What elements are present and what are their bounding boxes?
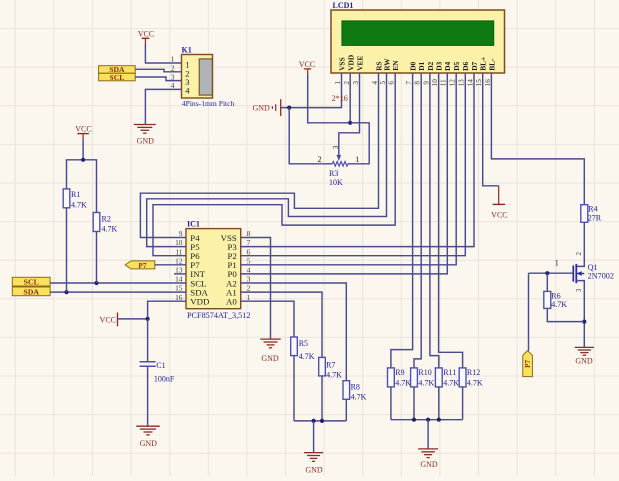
svg-text:6: 6 <box>247 247 251 256</box>
wire to GND (R5 group) <box>313 421 315 452</box>
svg-text:P7: P7 <box>138 261 147 270</box>
wire LCD D0 to R9 <box>391 73 413 368</box>
wire R11 bottom <box>438 387 440 420</box>
svg-text:D1: D1 <box>417 61 426 70</box>
svg-text:4.7K: 4.7K <box>326 370 342 379</box>
wire LCD pin 3 VEE to R3 wiper <box>339 73 360 155</box>
wire R1 to SDA <box>66 208 68 292</box>
svg-text:4.7K: 4.7K <box>418 379 434 388</box>
svg-text:12: 12 <box>449 79 457 87</box>
ground symbol (IC VSS) <box>260 339 281 348</box>
wire VCC to IC pin 16 VDD <box>118 301 186 319</box>
svg-text:GND: GND <box>137 137 155 146</box>
junction VCC/R1/R2 <box>81 158 85 162</box>
svg-text:2*16: 2*16 <box>332 94 348 103</box>
svg-text:1: 1 <box>355 155 359 164</box>
svg-text:C1: C1 <box>156 361 165 370</box>
IC1 right pin numbers 8-1 <box>247 229 251 302</box>
svg-text:BL-: BL- <box>487 58 496 71</box>
svg-text:D3: D3 <box>435 61 444 70</box>
wire P7 to IC pin 12 <box>155 264 186 266</box>
svg-text:SDA: SDA <box>23 287 39 296</box>
junction at R10 bottom <box>412 418 416 422</box>
power port VCC (LCD VDD) <box>299 60 315 75</box>
power port VCC (backlight) <box>491 186 507 220</box>
svg-text:K1: K1 <box>182 46 192 55</box>
wire LCD BL+ to VCC <box>483 73 499 186</box>
svg-text:4: 4 <box>371 81 379 85</box>
junction SDA/R1 <box>64 290 68 294</box>
resistor R5 <box>291 337 298 356</box>
svg-text:R1: R1 <box>71 190 80 199</box>
connector K1 <box>182 55 213 99</box>
svg-text:8: 8 <box>247 229 251 238</box>
svg-text:4.7K: 4.7K <box>443 379 459 388</box>
resistor R4 <box>581 205 588 223</box>
svg-text:2: 2 <box>318 155 322 164</box>
power port GND (LCD VSS, bar style) <box>252 99 280 116</box>
junction at R11 bottom <box>437 418 441 422</box>
svg-text:VSS: VSS <box>337 57 346 71</box>
wire GND to LCD pin 1 VSS <box>281 73 342 108</box>
wire P6 to LCD EN <box>153 73 395 256</box>
svg-text:10K: 10K <box>329 178 343 187</box>
wire gate junction to R6 <box>546 273 548 291</box>
resistor R11 <box>435 368 442 387</box>
svg-text:3: 3 <box>331 145 340 149</box>
svg-text:PCF8574AT_3,512: PCF8574AT_3,512 <box>187 311 250 320</box>
svg-text:7: 7 <box>405 81 413 85</box>
svg-text:7: 7 <box>247 238 251 247</box>
svg-text:4.7K: 4.7K <box>467 379 483 388</box>
svg-text:1: 1 <box>334 81 342 85</box>
svg-text:VDD: VDD <box>190 297 209 307</box>
junction source/R6 <box>582 320 586 324</box>
svg-text:SCL: SCL <box>24 278 39 287</box>
wire junction down to R3 pin 2 <box>289 108 332 164</box>
svg-text:8: 8 <box>414 81 422 85</box>
wire P1 to LCD D5 <box>241 73 457 265</box>
IC1 left pin numbers 9-16 <box>175 229 183 302</box>
resistor R1 <box>63 189 70 208</box>
svg-text:R12: R12 <box>467 368 480 377</box>
junction VDD/VCC/R3 <box>348 121 352 125</box>
wire LCD D2 to R11 <box>430 73 439 368</box>
wire Q1 gate <box>529 272 574 274</box>
svg-text:GND: GND <box>420 460 438 469</box>
svg-text:D5: D5 <box>452 61 461 70</box>
wire R7 bottom <box>321 376 323 421</box>
svg-text:4.7K: 4.7K <box>71 200 87 209</box>
wire A0 to R5 <box>241 301 294 337</box>
wire SCL to K1 pin 3 <box>135 77 181 81</box>
svg-text:3: 3 <box>352 81 360 85</box>
wire P2 to LCD D6 <box>241 73 466 256</box>
IC U1 PCF8574AT <box>186 229 241 309</box>
svg-text:RW: RW <box>382 58 391 71</box>
wire R4 to Q1 drain <box>576 222 584 266</box>
svg-text:4.7K: 4.7K <box>351 393 367 402</box>
svg-text:D7: D7 <box>470 61 479 70</box>
svg-text:27R: 27R <box>588 213 602 222</box>
wire SDA to IC pin 15 <box>50 291 186 293</box>
wire R6 bottom to source <box>547 308 584 321</box>
svg-text:14: 14 <box>175 275 183 284</box>
transistor Q1 2N7002 <box>573 264 584 283</box>
resistor R8 <box>343 381 350 400</box>
ground symbol (C1) <box>136 426 160 435</box>
wire VCC to K1 pin 1 <box>145 45 181 64</box>
port P7 (right) <box>523 351 533 377</box>
svg-text:1: 1 <box>171 55 175 64</box>
wire common bottom R9-R12 <box>391 419 463 421</box>
potentiometer R3 <box>332 155 348 166</box>
svg-text:GND: GND <box>261 354 279 363</box>
junction VDD/C1 <box>146 317 150 321</box>
svg-text:1: 1 <box>555 259 559 268</box>
svg-text:4.7K: 4.7K <box>102 225 118 234</box>
wire SDA to K1 pin 2 <box>135 69 181 72</box>
wire LCD D1 to R10 <box>414 73 421 368</box>
svg-text:R2: R2 <box>102 215 111 224</box>
svg-text:1: 1 <box>247 293 251 302</box>
svg-text:SCL: SCL <box>110 73 125 82</box>
svg-text:D6: D6 <box>461 61 470 70</box>
svg-text:2: 2 <box>247 284 251 293</box>
svg-text:VCC: VCC <box>100 315 116 324</box>
junction on GND wire <box>287 106 291 110</box>
svg-text:4: 4 <box>185 86 190 96</box>
IC1 pin 13 stub (INT) <box>174 273 186 275</box>
svg-text:P7: P7 <box>524 360 532 368</box>
wire R2 to SCL <box>96 232 98 284</box>
wire P5 to LCD RW <box>147 73 387 247</box>
svg-text:D2: D2 <box>426 61 435 70</box>
resistor R2 <box>93 213 100 232</box>
net label SCL (top) <box>99 73 136 82</box>
wire junction to C1 <box>147 319 149 362</box>
wire R9 bottom <box>390 387 392 420</box>
wire A2 to R8 <box>241 283 347 381</box>
wire P3 to LCD D7 <box>241 73 474 247</box>
svg-text:3: 3 <box>575 288 583 292</box>
svg-text:VCC: VCC <box>138 30 154 39</box>
svg-text:9: 9 <box>422 81 430 85</box>
svg-text:GND: GND <box>575 357 593 366</box>
wire R8 bottom <box>345 399 347 421</box>
ground symbol (Q1 source) <box>575 347 594 355</box>
wire LCD BL- to R4 <box>491 73 584 205</box>
svg-text:R3: R3 <box>329 169 338 178</box>
wire K1 pin 4 to GND <box>145 89 181 124</box>
net label SDA (left) <box>12 287 50 296</box>
port P7 (left) <box>125 261 155 270</box>
junction gate/R6 <box>545 271 549 275</box>
svg-text:R10: R10 <box>418 368 431 377</box>
wire to GND (R9 group) <box>427 420 429 449</box>
svg-text:A0: A0 <box>226 297 237 307</box>
svg-text:10: 10 <box>175 238 183 247</box>
svg-text:100nF: 100nF <box>154 374 175 383</box>
svg-text:2: 2 <box>171 64 175 73</box>
power port VCC (pull-ups) <box>75 125 91 140</box>
svg-text:IC1: IC1 <box>187 219 200 228</box>
K1 pin numbers 1-4 <box>171 55 175 90</box>
svg-text:VCC: VCC <box>75 125 91 134</box>
svg-text:12: 12 <box>175 256 183 265</box>
junction at R7 bottom <box>320 419 324 423</box>
svg-text:VEE: VEE <box>355 56 364 71</box>
resistor R6 <box>544 291 551 308</box>
svg-text:4.7K: 4.7K <box>551 300 567 309</box>
svg-text:16: 16 <box>484 79 492 87</box>
wire VDD junction to R3 pin 1 <box>348 123 369 164</box>
resistor R7 <box>319 357 326 376</box>
svg-text:4.7K: 4.7K <box>299 352 315 361</box>
svg-text:13: 13 <box>458 79 466 87</box>
svg-text:4: 4 <box>247 266 251 275</box>
svg-text:R5: R5 <box>299 339 308 348</box>
svg-text:4.7K: 4.7K <box>395 379 411 388</box>
svg-text:R4: R4 <box>588 204 597 213</box>
svg-text:BL+: BL+ <box>479 57 488 71</box>
svg-text:GND: GND <box>140 439 158 448</box>
svg-text:15: 15 <box>475 79 483 87</box>
svg-text:13: 13 <box>175 266 183 275</box>
resistor R10 <box>411 368 418 387</box>
svg-text:2: 2 <box>575 252 583 256</box>
wire A1 to R7 <box>241 292 322 357</box>
wire Q1 source to GND <box>576 281 584 348</box>
wire C1 to GND <box>147 366 149 426</box>
svg-text:R7: R7 <box>326 360 335 369</box>
resistor R12 <box>459 368 466 387</box>
wire VCC to R1/R2 tops <box>82 140 84 160</box>
svg-text:3: 3 <box>171 72 175 81</box>
svg-text:VCC: VCC <box>299 60 315 69</box>
capacitor C1 <box>140 362 156 367</box>
wire LCD D3 to R12 <box>439 73 463 368</box>
net label SCL (left) <box>12 277 50 286</box>
svg-text:GND: GND <box>305 465 323 474</box>
wire IC pin 8 VSS to GND <box>241 238 271 339</box>
power port VCC (K1 pin 1) <box>138 30 154 45</box>
power port VCC (IC VDD) <box>100 313 118 327</box>
svg-text:11: 11 <box>175 247 182 256</box>
svg-text:EN: EN <box>391 60 400 71</box>
wire gate to port P7 <box>528 273 530 351</box>
svg-text:2N7002: 2N7002 <box>588 271 614 280</box>
svg-text:R8: R8 <box>351 383 360 392</box>
svg-text:R11: R11 <box>443 368 456 377</box>
junction SCL/R2 <box>94 281 98 285</box>
wire LCD VDD stub <box>349 73 351 123</box>
resistor R9 <box>388 368 395 387</box>
wire VCC to LCD pin 2 VDD <box>308 75 351 123</box>
LCD module LCD1 <box>331 10 505 73</box>
svg-text:LCD1: LCD1 <box>333 1 354 10</box>
junction at GND stem (R9 group) <box>426 418 430 422</box>
net label SDA (top) <box>99 65 136 74</box>
wire P4 to LCD RS <box>140 73 378 238</box>
svg-text:11: 11 <box>440 79 448 86</box>
wire R10 bottom <box>413 387 415 420</box>
svg-text:VCC: VCC <box>491 210 507 219</box>
LCD1 pin numbers 1-16 <box>334 79 492 87</box>
svg-text:5: 5 <box>379 81 387 85</box>
ground symbol (R5 group) <box>304 453 323 462</box>
svg-text:15: 15 <box>175 284 183 293</box>
svg-text:5: 5 <box>247 256 251 265</box>
svg-text:GND: GND <box>252 103 270 112</box>
svg-text:R9: R9 <box>395 368 404 377</box>
wire R12 bottom <box>462 387 464 420</box>
svg-text:4Pins-1mm Pitch: 4Pins-1mm Pitch <box>182 99 235 108</box>
svg-text:4: 4 <box>171 81 175 90</box>
wire R5 bottom <box>293 356 295 421</box>
wire common bottom R5/R7/R8 <box>294 420 346 422</box>
ground symbol (R9 group) <box>418 449 438 458</box>
wire P0 to LCD D4 <box>241 73 448 274</box>
svg-text:16: 16 <box>175 293 183 302</box>
wire SCL to IC pin 14 <box>50 282 186 284</box>
svg-text:6: 6 <box>388 81 396 85</box>
svg-text:D4: D4 <box>443 61 452 70</box>
junction at GND stem (R5 group) <box>312 419 316 423</box>
svg-text:3: 3 <box>247 275 251 284</box>
svg-text:10: 10 <box>431 79 439 87</box>
ground symbol (K1 pin 4) <box>134 125 156 134</box>
svg-text:9: 9 <box>179 229 183 238</box>
svg-text:VDD: VDD <box>346 55 355 71</box>
svg-text:14: 14 <box>466 79 474 87</box>
